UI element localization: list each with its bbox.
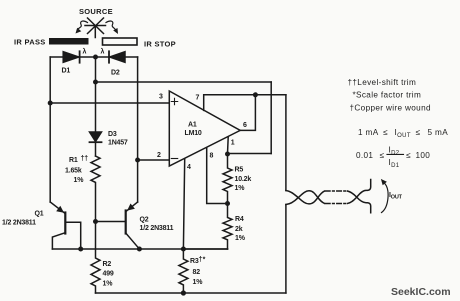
svg-text:1%: 1% <box>235 185 246 192</box>
svg-text:5 mA: 5 mA <box>428 128 449 137</box>
svg-text:R4: R4 <box>235 216 244 223</box>
annotation output current range <box>358 128 448 139</box>
op-amp U1 A1 LM10 <box>169 91 240 166</box>
svg-text:≤: ≤ <box>383 128 388 137</box>
svg-text:R1: R1 <box>69 157 78 164</box>
resistor R5 <box>223 154 232 204</box>
wire collector bus <box>52 248 227 250</box>
svg-text:LM10: LM10 <box>185 130 202 137</box>
svg-text:*Scale factor trim: *Scale factor trim <box>353 91 422 100</box>
wire bottom rail <box>96 292 286 294</box>
svg-text:SeekIC.com: SeekIC.com <box>391 286 451 298</box>
node Q2 collector <box>137 247 142 252</box>
label I OUT <box>389 192 403 201</box>
fraction bar <box>387 153 404 155</box>
svg-text:A1: A1 <box>188 122 197 129</box>
svg-text:Q1: Q1 <box>35 211 44 218</box>
svg-text:1%: 1% <box>235 235 246 242</box>
svg-text:2k: 2k <box>235 226 243 233</box>
svg-text:4: 4 <box>187 164 191 171</box>
wire top horizontal to pin1 net <box>96 81 272 83</box>
svg-text:1N457: 1N457 <box>108 140 128 147</box>
photodiode D2 <box>109 51 125 62</box>
svg-text:≤: ≤ <box>380 151 385 160</box>
svg-text:0.01: 0.01 <box>356 151 373 160</box>
diode D3 <box>90 132 102 156</box>
node left rail to pin 3 <box>48 101 53 106</box>
annotation diode current ratio <box>356 146 430 169</box>
IR stop filter <box>103 38 138 45</box>
wire left rail <box>49 57 51 202</box>
node pin4 R4 R3 <box>181 247 186 252</box>
current direction arrow <box>381 179 388 213</box>
svg-text:1/2 2N3811: 1/2 2N3811 <box>140 225 174 232</box>
wire into pin1 node <box>228 153 272 155</box>
svg-text:≤: ≤ <box>416 128 421 137</box>
svg-text:Q2: Q2 <box>140 217 149 224</box>
wire inverting input pin 2 <box>138 159 170 161</box>
svg-text:8: 8 <box>210 153 214 160</box>
wire vertical right of op-amp <box>270 82 272 154</box>
svg-text:1 mA: 1 mA <box>358 128 379 137</box>
light ray arrow left <box>76 21 88 33</box>
svg-text:100: 100 <box>416 151 431 160</box>
wire loop positive vertical <box>285 95 287 191</box>
svg-text:499: 499 <box>103 271 114 278</box>
svg-text:6: 6 <box>243 122 247 129</box>
svg-text:7: 7 <box>196 95 200 102</box>
node R5 R4 pin8 <box>225 201 230 206</box>
resistor R3 <box>179 249 188 293</box>
node R3 bottom <box>181 290 186 295</box>
transistor Q2 <box>96 202 140 249</box>
svg-text:82: 82 <box>193 269 201 276</box>
svg-text:D1: D1 <box>62 68 71 75</box>
svg-text:1.65k: 1.65k <box>65 168 82 175</box>
svg-text:1%: 1% <box>193 279 204 286</box>
wire loop negative vertical <box>285 205 287 294</box>
light ray arrow right <box>106 21 118 34</box>
node D1-D2 junction <box>93 55 98 60</box>
svg-text:1%: 1% <box>74 177 85 184</box>
svg-text:λ: λ <box>83 48 87 56</box>
svg-text:1%: 1% <box>103 281 114 288</box>
svg-text:10.2k: 10.2k <box>235 176 252 183</box>
IR pass filter <box>49 38 89 45</box>
wire pin 7 to supply <box>204 95 286 111</box>
svg-text:† *: † * <box>199 257 206 264</box>
svg-text:3: 3 <box>159 94 163 101</box>
wire D2 cathode vertical <box>137 57 139 202</box>
svg-text:2: 2 <box>157 152 161 159</box>
svg-text:λ: λ <box>101 48 105 56</box>
wire output pin 6 <box>240 95 255 131</box>
svg-text:IR PASS: IR PASS <box>14 38 46 47</box>
resistor R1 <box>91 156 100 222</box>
resistor R2 <box>91 222 100 294</box>
wire pin 4 <box>183 159 184 249</box>
wire center vertical upper <box>95 57 97 132</box>
node Q2 base R1 R2 <box>93 219 98 224</box>
wire diode row <box>50 56 137 58</box>
node inverting branch <box>135 158 140 163</box>
svg-text:D3: D3 <box>108 131 117 138</box>
node center branch <box>93 80 98 85</box>
wire noninverting input pin 3 <box>50 102 169 104</box>
svg-text:SOURCE: SOURCE <box>79 7 113 16</box>
svg-text:IR STOP: IR STOP <box>144 40 176 49</box>
svg-text:††Level-shift trim: ††Level-shift trim <box>348 78 417 87</box>
resistor R4 <box>223 204 232 250</box>
wire R4 bottom to pin4 node <box>183 248 227 250</box>
svg-text:≤: ≤ <box>406 151 411 160</box>
node pin1 R5 <box>225 152 230 157</box>
node Q1 base tie <box>78 247 83 252</box>
svg-text:††: †† <box>81 156 89 163</box>
twisted pair <box>286 180 371 213</box>
IR source lamp <box>85 18 106 38</box>
node output junction <box>253 92 258 97</box>
svg-text:D2: D2 <box>111 70 120 77</box>
wire pin 1 stub <box>227 137 230 154</box>
svg-text:R2: R2 <box>103 261 112 268</box>
photodiode D1 <box>63 51 79 62</box>
svg-text:1: 1 <box>231 140 235 147</box>
transistor Q1 <box>50 202 80 249</box>
svg-text:1/2 2N3811: 1/2 2N3811 <box>2 220 36 227</box>
svg-text:†Copper wire wound: †Copper wire wound <box>350 104 431 113</box>
wire pin 8 <box>207 148 228 204</box>
svg-text:R5: R5 <box>235 167 244 174</box>
